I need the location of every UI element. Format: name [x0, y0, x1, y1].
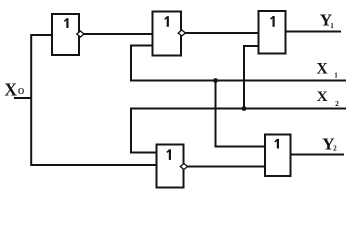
- svg-text:1: 1: [334, 71, 338, 79]
- gate U2: [153, 12, 182, 56]
- svg-text:o: o: [18, 82, 25, 97]
- wire U4 output to U5 lower input: [187, 166, 265, 168]
- wire net X2 (U4 upper input up to X2 line, right to terminal): [131, 109, 346, 153]
- node label Y1: [320, 10, 335, 29]
- wire X2 branch to U3 lower input: [244, 46, 259, 109]
- gate U5: [265, 135, 291, 177]
- gate U4: [157, 145, 184, 188]
- svg-text:1: 1: [330, 22, 334, 30]
- wire X1 branch to U5 upper input: [216, 81, 266, 147]
- svg-text:2: 2: [333, 144, 337, 153]
- wire U1 output to U2 input: [83, 33, 152, 35]
- svg-text:X: X: [317, 89, 328, 105]
- svg-text:X: X: [317, 61, 329, 78]
- gate U1: [52, 14, 79, 55]
- junction dot on X2 line: [242, 106, 247, 111]
- inversion bubble on U1 output: [77, 31, 84, 37]
- gate U3: [259, 11, 286, 54]
- node label Y2: [322, 134, 337, 153]
- wire X0 input lead: [14, 97, 31, 99]
- node label X1: [317, 61, 339, 80]
- inversion bubble on U4 output: [180, 164, 187, 170]
- inversion bubble on U2 output: [178, 30, 185, 36]
- wire X0 bus (left vertical, to U1 input and U4 input): [31, 35, 156, 165]
- node label X2: [317, 89, 339, 108]
- svg-text:X: X: [4, 80, 17, 100]
- wire Y1 output: [286, 31, 342, 33]
- node label X0: [4, 80, 24, 100]
- svg-text:2: 2: [335, 99, 339, 108]
- wire net X1 (U2 lower input down to X1 line, right to terminal): [131, 46, 346, 81]
- junction dot on X1 line: [213, 78, 218, 83]
- wire Y2 output: [291, 154, 345, 156]
- wire U2 output to U3 input: [185, 32, 259, 34]
